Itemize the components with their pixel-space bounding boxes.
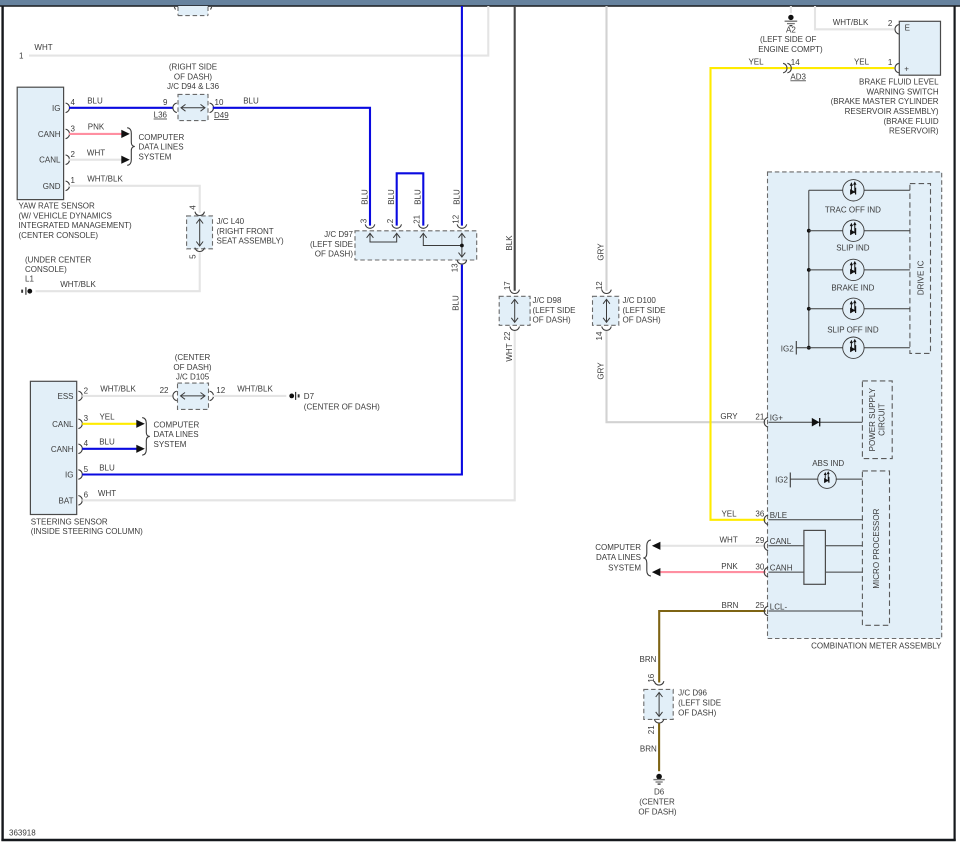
svg-text:DATA LINES: DATA LINES: [139, 143, 184, 152]
svg-text:DATA LINES: DATA LINES: [596, 553, 641, 562]
wire WHT yaw CANL: [69, 159, 122, 161]
svg-text:+: +: [904, 64, 909, 73]
wire WHT/BLK to brake fluid switch pin 2: [815, 6, 894, 29]
svg-text:2: 2: [84, 386, 89, 395]
svg-text:29: 29: [755, 536, 764, 545]
svg-text:36: 36: [755, 509, 764, 518]
svg-text:5: 5: [84, 465, 89, 474]
svg-text:STEERING SENSOR: STEERING SENSOR: [31, 517, 108, 526]
LED IG2 row (unlabeled): [781, 337, 910, 358]
svg-text:RESERVOIR): RESERVOIR): [889, 127, 939, 136]
computer data lines caption (yaw): [139, 133, 185, 162]
combination meter assembly box: [768, 172, 942, 639]
svg-text:30: 30: [755, 562, 764, 571]
svg-text:CANL: CANL: [39, 156, 61, 165]
svg-text:OF DASH): OF DASH): [623, 316, 662, 325]
svg-text:OF DASH): OF DASH): [678, 708, 717, 717]
svg-text:BLU: BLU: [99, 463, 115, 472]
svg-text:BAT: BAT: [59, 496, 74, 505]
wire WHT steering BAT to J/C D98: [82, 331, 515, 500]
svg-text:B/LE: B/LE: [770, 511, 787, 520]
svg-text:SYSTEM: SYSTEM: [154, 440, 187, 449]
computer data lines caption (meter): [595, 543, 641, 573]
svg-text:IG: IG: [52, 104, 60, 113]
svg-text:14: 14: [595, 331, 604, 340]
svg-text:BRN: BRN: [640, 744, 657, 753]
meter pin 25 LCL-: [764, 606, 768, 616]
yaw pin 3 bracket: [66, 129, 70, 139]
wire WHT/BLK J/C L40 to L1: [36, 252, 200, 291]
svg-text:9: 9: [163, 98, 168, 107]
J/C D105: [160, 353, 226, 409]
svg-text:CANH: CANH: [770, 564, 793, 573]
top header bar: [0, 0, 960, 5]
wire YEL steering CANL: [82, 423, 136, 425]
junction connector partial (top edge, cut off): [174, 6, 211, 16]
brace computer data lines (meter): [643, 540, 651, 576]
svg-text:COMBINATION METER ASSEMBLY: COMBINATION METER ASSEMBLY: [811, 641, 942, 650]
svg-text:WHT: WHT: [34, 43, 52, 52]
svg-text:DATA LINES: DATA LINES: [154, 430, 199, 439]
svg-text:BLU: BLU: [360, 189, 369, 205]
LED BRAKE IND: [807, 259, 910, 292]
svg-text:3: 3: [359, 218, 368, 223]
wire WHT circuit 1 (top left, off-page up): [19, 6, 488, 61]
svg-text:12: 12: [595, 281, 604, 290]
svg-text:21: 21: [755, 412, 764, 421]
steering pin 3 bracket: [78, 419, 82, 429]
steering pin 4 bracket: [78, 444, 82, 454]
svg-text:4: 4: [188, 205, 197, 210]
svg-text:CANL: CANL: [52, 420, 74, 429]
svg-text:A2: A2: [786, 25, 796, 34]
micro processor box: [862, 471, 889, 625]
svg-text:(CENTER CONSOLE): (CENTER CONSOLE): [19, 231, 99, 240]
svg-text:BRN: BRN: [640, 655, 657, 664]
ground A2 stub wire: [790, 6, 792, 13]
steering sensor box: [30, 381, 76, 514]
svg-text:SEAT ASSEMBLY): SEAT ASSEMBLY): [217, 237, 284, 246]
D97 internal link pin21-pin12-pin13: [423, 234, 462, 246]
wire PNK yaw CANH: [69, 133, 122, 135]
svg-text:COMPUTER: COMPUTER: [139, 133, 185, 142]
svg-text:E: E: [905, 24, 910, 33]
arrow to data lines (CANL): [136, 420, 145, 428]
svg-text:SYSTEM: SYSTEM: [608, 564, 641, 573]
wire GRY trunk to J/C D100: [605, 6, 607, 291]
svg-text:2: 2: [888, 19, 893, 28]
svg-text:CIRCUIT: CIRCUIT: [878, 403, 887, 436]
svg-text:J/C D96: J/C D96: [678, 688, 707, 697]
ground D7: [289, 392, 380, 412]
svg-text:4: 4: [84, 439, 89, 448]
steering pin 2 bracket: [78, 391, 82, 401]
svg-text:OF DASH): OF DASH): [174, 72, 213, 81]
svg-text:COMPUTER: COMPUTER: [154, 420, 200, 429]
svg-text:BLK: BLK: [505, 235, 514, 251]
wire WHT to meter CANL: [660, 545, 765, 547]
wire YEL brake switch to meter B/LE: [711, 68, 895, 520]
svg-text:WHT: WHT: [505, 343, 514, 361]
svg-text:21: 21: [647, 725, 656, 734]
svg-text:21: 21: [413, 214, 422, 223]
svg-text:BRAKE IND: BRAKE IND: [831, 283, 874, 292]
diode D1: [812, 418, 820, 427]
svg-text:J/C D97: J/C D97: [324, 230, 353, 239]
svg-text:CANL: CANL: [770, 537, 792, 546]
svg-text:WHT/BLK: WHT/BLK: [833, 18, 869, 27]
svg-text:4: 4: [71, 98, 76, 107]
wire BRN J/C D96 to D6: [658, 724, 660, 772]
top border line: [0, 5, 960, 7]
svg-text:INTEGRATED MANAGEMENT): INTEGRATED MANAGEMENT): [19, 221, 133, 230]
svg-text:13: 13: [451, 263, 460, 272]
meter pin 30 CANH: [764, 567, 768, 577]
svg-text:(RIGHT SIDE: (RIGHT SIDE: [169, 63, 217, 72]
LED SLIP OFF IND: [807, 298, 910, 334]
brake switch caption: [831, 78, 940, 136]
svg-text:RESERVOIR ASSEMBLY): RESERVOIR ASSEMBLY): [845, 107, 939, 116]
svg-text:WHT/BLK: WHT/BLK: [100, 385, 136, 394]
svg-text:1: 1: [71, 176, 76, 185]
svg-text:10: 10: [215, 98, 224, 107]
steering sensor caption: [31, 517, 143, 536]
svg-text:IG+: IG+: [770, 414, 783, 423]
J/C D98: [499, 281, 575, 362]
wire BLU J/C D94 to J/C D97 pin 3: [213, 108, 370, 226]
svg-text:(BRAKE MASTER CYLINDER: (BRAKE MASTER CYLINDER: [831, 97, 939, 106]
svg-text:12: 12: [451, 214, 460, 223]
svg-text:BLU: BLU: [99, 438, 115, 447]
svg-text:5: 5: [188, 254, 197, 259]
svg-text:(RIGHT FRONT: (RIGHT FRONT: [217, 227, 274, 236]
svg-text:(LEFT SIDE: (LEFT SIDE: [310, 240, 353, 249]
J/C L40: [187, 205, 284, 259]
svg-text:(UNDER CENTER: (UNDER CENTER: [25, 255, 91, 264]
wire BRN meter LCL- down to J/C D96: [659, 611, 765, 683]
svg-text:YEL: YEL: [854, 58, 870, 67]
power supply circuit box: [862, 381, 892, 459]
brake fluid level warning switch box: [899, 21, 940, 75]
svg-text:(LEFT SIDE: (LEFT SIDE: [623, 306, 666, 315]
arrow to data lines (CANH): [121, 130, 130, 138]
svg-text:POWER SUPPLY: POWER SUPPLY: [868, 387, 877, 451]
drive IC box: [910, 184, 931, 354]
svg-text:ESS: ESS: [57, 392, 73, 401]
yaw rate sensor box: [17, 87, 63, 199]
svg-text:GRY: GRY: [597, 243, 606, 261]
svg-text:14: 14: [791, 58, 800, 67]
svg-text:COMPUTER: COMPUTER: [595, 543, 641, 552]
svg-text:BRAKE FLUID LEVEL: BRAKE FLUID LEVEL: [859, 78, 939, 87]
wire WHT/BLK J/C D105 to D7: [213, 395, 287, 397]
J/C D96: [644, 673, 721, 734]
brake switch pin 2 bracket: [895, 25, 899, 35]
svg-text:(CENTER: (CENTER: [175, 353, 211, 362]
wire BLU J/C D97 pin 2 to pin 21 bridge: [397, 173, 424, 225]
svg-text:WHT/BLK: WHT/BLK: [87, 175, 123, 184]
yaw pin 4 bracket: [66, 103, 70, 113]
svg-text:WHT: WHT: [98, 489, 116, 498]
meter pin 29 CANL: [764, 541, 768, 551]
svg-text:BRN: BRN: [722, 601, 739, 610]
svg-text:OF DASH): OF DASH): [533, 316, 572, 325]
svg-text:J/C L40: J/C L40: [217, 217, 245, 226]
svg-text:2: 2: [386, 218, 395, 223]
svg-text:ENGINE COMPT): ENGINE COMPT): [758, 45, 823, 54]
arrow to data lines (CANL): [121, 156, 130, 164]
svg-text:BLU: BLU: [387, 189, 396, 205]
svg-text:22: 22: [503, 331, 512, 340]
svg-text:GND: GND: [43, 182, 61, 191]
wire GRY J/C D100 to meter IG+: [607, 331, 766, 422]
svg-text:CANH: CANH: [51, 445, 74, 454]
svg-text:OF DASH): OF DASH): [173, 363, 212, 372]
wire BLU steering CANH: [82, 448, 136, 450]
svg-text:GRY: GRY: [597, 362, 606, 380]
wire WHT/BLK steering ESS to J/C D105: [82, 395, 173, 397]
svg-text:YEL: YEL: [99, 413, 115, 422]
svg-text:(CENTER: (CENTER: [639, 798, 675, 807]
svg-text:CANH: CANH: [38, 130, 61, 139]
LED TRAC OFF IND: [809, 180, 910, 215]
svg-text:BLU: BLU: [87, 97, 103, 106]
svg-text:LCL-: LCL-: [770, 602, 788, 611]
J/C D94 & L36: [154, 63, 230, 121]
wire PNK to meter CANH: [660, 571, 765, 573]
svg-text:2: 2: [71, 150, 76, 159]
svg-text:(INSIDE STEERING COLUMN): (INSIDE STEERING COLUMN): [31, 527, 143, 536]
wire BLU yaw IG to J/C D94: [69, 107, 173, 109]
svg-text:BLU: BLU: [452, 189, 461, 205]
brake switch pin 1 bracket: [895, 63, 899, 73]
svg-text:YAW RATE SENSOR: YAW RATE SENSOR: [19, 202, 96, 211]
svg-text:L1: L1: [25, 275, 34, 284]
svg-text:J/C D98: J/C D98: [533, 296, 562, 305]
svg-text:D6: D6: [654, 788, 665, 797]
arrow to data lines (meter CANH): [652, 568, 661, 576]
svg-text:1: 1: [19, 52, 24, 61]
svg-text:WHT/BLK: WHT/BLK: [237, 385, 273, 394]
brace computer data lines (steering): [142, 418, 150, 456]
arrow to data lines (CANH): [136, 445, 145, 453]
svg-text:SLIP IND: SLIP IND: [836, 244, 869, 253]
wire BLU trunk into J/C D97 pin 12 (from top): [461, 6, 463, 226]
svg-text:TRAC OFF IND: TRAC OFF IND: [825, 206, 881, 215]
svg-text:ABS IND: ABS IND: [812, 459, 844, 468]
left border: [1, 6, 3, 841]
svg-text:(LEFT SIDE: (LEFT SIDE: [533, 306, 576, 315]
svg-text:PNK: PNK: [721, 562, 738, 571]
svg-text:WHT/BLK: WHT/BLK: [60, 280, 96, 289]
svg-text:GRY: GRY: [720, 412, 738, 421]
yaw sensor caption: [19, 202, 133, 240]
computer data lines caption (steering): [154, 420, 200, 449]
svg-text:BLU: BLU: [414, 189, 423, 205]
svg-text:3: 3: [71, 124, 76, 133]
svg-text:3: 3: [84, 414, 89, 423]
steering pin 5 bracket: [78, 470, 82, 480]
svg-text:22: 22: [160, 386, 169, 395]
svg-text:IG2: IG2: [781, 344, 794, 353]
svg-text:363918: 363918: [9, 829, 36, 838]
wire BLU steering IG (long run up): [82, 265, 462, 475]
J/C D100: [593, 281, 666, 380]
svg-text:MICRO PROCESSOR: MICRO PROCESSOR: [872, 508, 881, 588]
svg-text:(LEFT SIDE OF: (LEFT SIDE OF: [760, 35, 816, 44]
svg-text:D49: D49: [214, 111, 229, 120]
CAN transceiver block: [804, 530, 826, 584]
ground D6: [638, 774, 677, 817]
yaw pin 1 bracket: [66, 181, 70, 191]
LED SLIP IND: [807, 220, 910, 253]
svg-text:BLU: BLU: [243, 97, 259, 106]
steering pin 6 bracket: [78, 496, 82, 506]
svg-text:(LEFT SIDE: (LEFT SIDE: [678, 699, 721, 708]
svg-text:(W/ VEHICLE DYNAMICS: (W/ VEHICLE DYNAMICS: [19, 211, 112, 220]
svg-text:1: 1: [888, 58, 893, 67]
svg-text:YEL: YEL: [721, 510, 737, 519]
svg-text:J/C D94 & L36: J/C D94 & L36: [167, 82, 220, 91]
svg-text:DRIVE IC: DRIVE IC: [917, 260, 926, 295]
svg-text:PNK: PNK: [88, 123, 105, 132]
svg-text:SYSTEM: SYSTEM: [139, 152, 172, 161]
svg-text:YEL: YEL: [748, 58, 764, 67]
svg-text:OF DASH): OF DASH): [638, 808, 677, 817]
brace computer data lines (yaw): [127, 128, 135, 166]
yaw pin 2 bracket: [66, 155, 70, 165]
bottom border: [1, 839, 955, 842]
svg-text:CONSOLE): CONSOLE): [25, 265, 67, 274]
svg-text:17: 17: [503, 281, 512, 290]
svg-text:IG: IG: [65, 471, 73, 480]
svg-text:D7: D7: [304, 392, 315, 401]
svg-text:(CENTER OF DASH): (CENTER OF DASH): [304, 402, 380, 411]
svg-text:J/C D100: J/C D100: [623, 296, 657, 305]
wire BLK trunk to J/C D98: [514, 6, 516, 291]
wire WHT/BLK yaw GND to J/C L40: [69, 186, 200, 213]
svg-text:BLU: BLU: [451, 295, 460, 311]
svg-text:WHT: WHT: [87, 149, 105, 158]
svg-text:6: 6: [84, 491, 89, 500]
svg-text:OF DASH): OF DASH): [315, 250, 354, 259]
svg-text:25: 25: [755, 601, 764, 610]
LED ABS IND: [775, 459, 862, 489]
arrow to data lines (meter CANL): [652, 542, 661, 550]
svg-text:J/C D105: J/C D105: [176, 373, 210, 382]
svg-text:WARNING SWITCH: WARNING SWITCH: [866, 87, 938, 96]
under center console caption: [25, 255, 91, 283]
svg-text:L36: L36: [154, 111, 168, 120]
svg-text:SLIP OFF IND: SLIP OFF IND: [827, 326, 879, 335]
right border: [953, 6, 955, 841]
splice AD3: [783, 58, 806, 82]
svg-text:WHT: WHT: [719, 536, 737, 545]
indicator bus wire: [808, 190, 810, 347]
J/C D97: [310, 230, 354, 259]
svg-text:(BRAKE FLUID: (BRAKE FLUID: [883, 117, 938, 126]
D97 internal link pin3-pin2: [370, 234, 397, 242]
wire IG+ to power supply: [769, 421, 863, 423]
svg-text:12: 12: [216, 386, 225, 395]
ground L1: [21, 287, 32, 295]
svg-text:IG2: IG2: [775, 476, 788, 485]
ground A2: [758, 15, 823, 54]
svg-text:AD3: AD3: [790, 72, 806, 81]
